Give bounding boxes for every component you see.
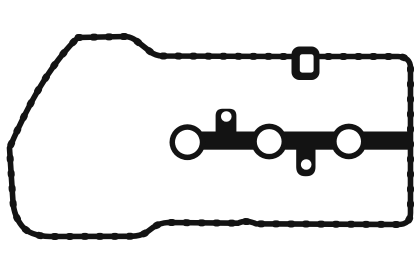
lower bolt boss (296, 147, 315, 176)
plug ring 2 (251, 124, 287, 160)
upper bolt boss (216, 109, 237, 135)
gasket outer perimeter (10, 37, 411, 237)
spark plug tube bar (186, 132, 410, 150)
plug ring 3 (331, 124, 367, 160)
plug ring 1 (170, 124, 206, 160)
top tab with square hole (292, 47, 320, 81)
bead nubs along perimeter (10, 37, 411, 237)
